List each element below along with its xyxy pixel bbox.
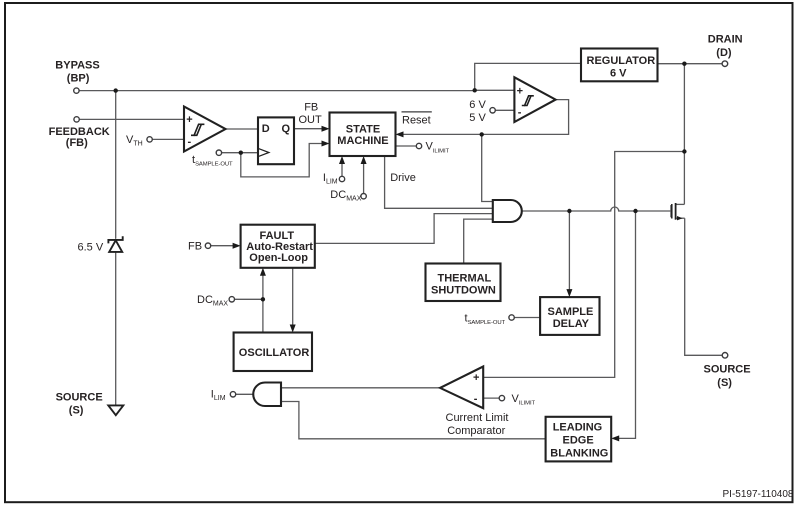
- wire MOSFET source to SOURCE terminal: [685, 218, 723, 355]
- svg-text:-: -: [518, 107, 522, 119]
- svg-text:-: -: [474, 393, 478, 405]
- wire reset branch down to AND gate input: [482, 134, 493, 201]
- AND gate G2 mirrored: [253, 383, 281, 407]
- wire 6V 5V reference to comparator U2 -: [495, 109, 514, 111]
- wire FB to fault block: [211, 245, 234, 247]
- svg-text:Open-Loop: Open-Loop: [249, 252, 308, 264]
- svg-text:5 V: 5 V: [469, 112, 486, 124]
- node junction drain regulator: [682, 62, 686, 66]
- wire fault output to AND gate: [315, 214, 493, 244]
- svg-text:(FB): (FB): [66, 137, 88, 149]
- arrowhead ILIM into state machine: [339, 156, 345, 164]
- svg-text:6.5 V: 6.5 V: [78, 241, 104, 253]
- wire tSAMPLE-OUT to sample delay: [514, 317, 540, 319]
- comparator U1 feedback: [184, 107, 226, 152]
- oscillator U7: [234, 333, 312, 372]
- wire VTH to comparator -: [152, 138, 184, 140]
- svg-text:Drive: Drive: [390, 172, 416, 184]
- wire DCMAX arrow into state machine: [363, 161, 365, 194]
- arrowhead tSAMPLE branch into state machine: [322, 141, 330, 147]
- arrowhead into sample delay: [566, 289, 572, 297]
- node junction AND output sample delay: [567, 209, 571, 213]
- arrowhead fault into oscillator: [290, 325, 296, 333]
- svg-text:6 V: 6 V: [610, 67, 627, 79]
- leading edge blanking U10: [546, 417, 612, 462]
- wire comparator U2 output / Reset to state machine: [403, 100, 569, 135]
- arrowhead FB OUT into state machine: [322, 126, 330, 132]
- svg-text:-: -: [188, 136, 192, 148]
- ground symbol SOURCE: [108, 405, 123, 415]
- wire comparator U2 + input from bypass: [475, 89, 515, 91]
- svg-text:SHUTDOWN: SHUTDOWN: [431, 285, 496, 297]
- wire DCMAX up arrow to fault block: [262, 273, 264, 300]
- comparator U2 bypass: [514, 77, 555, 122]
- svg-text:+: +: [517, 85, 523, 97]
- svg-text:FB: FB: [188, 241, 202, 253]
- wire state machine VILIMIT: [396, 145, 417, 147]
- svg-text:OUT: OUT: [299, 114, 323, 126]
- svg-text:EDGE: EDGE: [563, 435, 594, 447]
- wire BYPASS horizontal: [79, 90, 475, 92]
- wire tSAMPLE-OUT branch to state machine: [241, 144, 323, 177]
- regulator U5: [581, 49, 658, 82]
- wire drain branch to current limit comparator +: [483, 152, 684, 378]
- wire regulator output to drain: [658, 63, 723, 65]
- wire leading edge blanking output to AND G2: [281, 402, 546, 439]
- svg-text:(BP): (BP): [67, 72, 90, 84]
- wire AND output down to sample delay: [568, 211, 570, 293]
- svg-text:SOURCE: SOURCE: [704, 363, 751, 375]
- terminal circle VTH: [147, 137, 152, 142]
- svg-text:FB: FB: [304, 102, 318, 114]
- terminal circle tSAMPLE-OUT clock: [216, 150, 221, 155]
- wire VILIMIT to current limit comparator -: [483, 397, 499, 399]
- node junction bypass regulator: [473, 88, 477, 92]
- svg-text:(D): (D): [716, 47, 732, 59]
- svg-text:(S): (S): [69, 404, 84, 416]
- svg-text:DRAIN: DRAIN: [708, 33, 743, 45]
- wire Q output FB OUT to state machine: [295, 128, 324, 130]
- terminal circle 6V 5V reference: [490, 108, 495, 113]
- wire FEEDBACK to comparator +: [79, 118, 184, 120]
- terminal circle ILIM AND gate: [230, 392, 235, 397]
- svg-text:FEEDBACK: FEEDBACK: [49, 126, 110, 138]
- arrowhead DCMAX into state machine: [361, 156, 367, 164]
- svg-text:+: +: [186, 114, 192, 126]
- node junction reset line: [480, 132, 484, 136]
- terminal circle DCMAX oscillator: [229, 297, 234, 302]
- terminal circle VILIMIT comparator: [499, 395, 504, 400]
- terminal circle FEEDBACK: [74, 117, 79, 122]
- wire DCMAX to junction: [235, 298, 263, 300]
- wire AND output down to leading edge blanking: [616, 211, 636, 438]
- thermal shutdown U8: [426, 264, 501, 302]
- svg-text:D: D: [262, 123, 270, 135]
- wire thermal shutdown to AND gate: [464, 219, 493, 263]
- svg-text:OSCILLATOR: OSCILLATOR: [239, 347, 310, 359]
- sample delay U9: [540, 297, 599, 335]
- hysteresis symbol U2: [522, 96, 534, 106]
- wire tSAMPLE-OUT to clock: [222, 152, 258, 154]
- svg-text:Reset: Reset: [402, 114, 431, 126]
- terminal circle VILIMIT state machine: [416, 143, 421, 148]
- terminal circle DCMAX state machine: [361, 194, 366, 199]
- svg-text:THERMAL: THERMAL: [438, 273, 492, 285]
- wire current limit comparator output to AND gate G2: [281, 387, 441, 389]
- wire fault to oscillator arrow: [292, 268, 294, 327]
- wire AND G2 output to ILIM node: [236, 393, 254, 395]
- arrowhead into leading edge blanking: [611, 435, 619, 441]
- wire left vertical (BP to zener): [115, 91, 117, 239]
- arrowhead Reset into state machine: [396, 131, 404, 137]
- svg-text:+: +: [473, 372, 479, 384]
- wire regulator input from bypass: [475, 63, 581, 90]
- wire comparator U1 output to flip-flop D: [226, 128, 258, 130]
- node junction BP left: [114, 88, 118, 92]
- node junction tSAMPLE-OUT: [239, 151, 243, 155]
- wire drain vertical: [683, 64, 685, 205]
- svg-text:SAMPLE: SAMPLE: [548, 306, 594, 318]
- svg-text:Current Limit: Current Limit: [446, 412, 509, 424]
- wire DCMAX down to oscillator: [262, 299, 264, 332]
- current limit comparator U11: [440, 367, 483, 409]
- state machine U4: [330, 113, 396, 157]
- svg-text:Q: Q: [282, 123, 291, 135]
- svg-text:REGULATOR: REGULATOR: [587, 55, 656, 67]
- svg-text:6 V: 6 V: [469, 99, 486, 111]
- zener diode D1 6.5V: [108, 236, 122, 252]
- svg-text:BYPASS: BYPASS: [55, 59, 99, 71]
- wire AND gate output to MOSFET gate with hop: [522, 207, 671, 211]
- arrowhead FB into fault: [233, 243, 241, 249]
- AND gate G1: [493, 200, 522, 222]
- terminal circle tSAMPLE-OUT sample delay: [509, 315, 514, 320]
- hysteresis symbol U1: [191, 124, 204, 135]
- label Reset with overline: [402, 112, 432, 127]
- svg-text:DELAY: DELAY: [553, 318, 590, 330]
- svg-text:Comparator: Comparator: [447, 425, 505, 437]
- terminal circle FB fault: [205, 243, 210, 248]
- svg-text:MACHINE: MACHINE: [337, 135, 388, 147]
- terminal circle BYPASS: [74, 88, 79, 93]
- svg-text:PI-5197-110408: PI-5197-110408: [723, 489, 794, 500]
- arrowhead DCMAX into fault: [260, 268, 266, 276]
- node junction AND output LEB: [633, 209, 637, 213]
- wire Drive to AND gate: [385, 156, 493, 208]
- terminal circle DRAIN: [722, 61, 728, 67]
- MOSFET Q1: [671, 203, 685, 220]
- wire zener to ground: [115, 252, 117, 405]
- svg-text:STATE: STATE: [346, 123, 380, 135]
- svg-text:(S): (S): [717, 377, 732, 389]
- flip-flop U3: [258, 117, 294, 164]
- wire ILIM arrow into state machine: [341, 161, 343, 176]
- fault block U6: [241, 225, 315, 268]
- svg-text:SOURCE: SOURCE: [56, 391, 103, 403]
- node junction DCMAX: [261, 297, 265, 301]
- node junction drain branch: [682, 149, 686, 153]
- terminal circle SOURCE right: [722, 353, 728, 359]
- svg-text:BLANKING: BLANKING: [550, 448, 608, 460]
- svg-text:LEADING: LEADING: [553, 422, 603, 434]
- terminal circle ILIM state machine: [339, 176, 344, 181]
